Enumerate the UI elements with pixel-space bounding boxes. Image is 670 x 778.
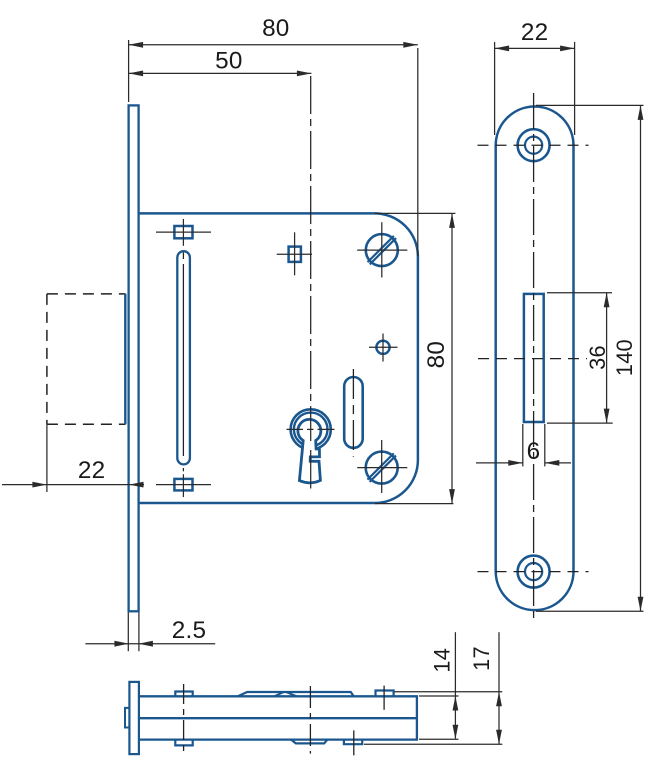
bottom view tab top left bbox=[175, 692, 192, 697]
svg-text:50: 50 bbox=[215, 48, 242, 75]
guide slot bbox=[177, 251, 190, 464]
guide square bottom bbox=[156, 474, 211, 497]
bottom view cover plate top bbox=[238, 692, 354, 696]
dimension 17 bbox=[364, 632, 502, 744]
lock body outline bbox=[139, 213, 418, 503]
svg-text:17: 17 bbox=[469, 646, 494, 671]
plate hole bottom bbox=[518, 556, 550, 588]
bottom view tab bottom right bbox=[344, 740, 362, 745]
svg-text:22: 22 bbox=[521, 19, 548, 46]
bottom view tab top right bbox=[376, 691, 394, 697]
auxiliary slot centerline bbox=[352, 369, 354, 457]
keyhole bbox=[287, 406, 335, 489]
dimension 2.5 bbox=[85, 612, 215, 651]
svg-text:80: 80 bbox=[423, 341, 450, 368]
svg-text:140: 140 bbox=[612, 339, 637, 376]
bottom view tab bottom left bbox=[175, 740, 192, 746]
keyhole centerline bbox=[310, 76, 312, 404]
bottom view centerline left tabs bbox=[183, 684, 185, 753]
plate hole bottom centerline bbox=[478, 571, 589, 573]
latch bolt face edge bbox=[124, 294, 126, 425]
svg-text:36: 36 bbox=[585, 345, 610, 370]
guide slot centerline bbox=[182, 253, 184, 472]
dimension 22 right bbox=[495, 19, 575, 135]
pin hole bbox=[369, 334, 398, 362]
plate hole top bbox=[518, 129, 550, 161]
bottom view bolt tip bbox=[125, 708, 129, 728]
plate slot centerline bbox=[478, 358, 587, 360]
svg-text:80: 80 bbox=[262, 15, 289, 42]
dimension 6 bbox=[476, 424, 571, 466]
dimension 36 bbox=[547, 293, 613, 423]
dimension 80 right bbox=[375, 213, 456, 503]
dimension 50 bbox=[129, 48, 312, 77]
strike plate side view bbox=[496, 107, 574, 611]
bottom view faceplate bbox=[129, 682, 139, 754]
dimension 140 bbox=[536, 105, 644, 611]
guide square top bbox=[156, 219, 211, 246]
svg-text:6: 6 bbox=[527, 438, 541, 465]
auxiliary slot bbox=[344, 377, 363, 448]
plate slot bbox=[524, 294, 544, 422]
bottom view cover bend bottom bbox=[291, 740, 327, 744]
svg-text:22: 22 bbox=[78, 457, 105, 484]
svg-text:14: 14 bbox=[430, 648, 455, 673]
bottom view body bbox=[140, 696, 417, 739]
latch bolt hidden outline bbox=[47, 294, 126, 424]
front view faceplate bbox=[129, 105, 139, 611]
plate hole top centerline bbox=[478, 144, 589, 146]
dimension 80 top bbox=[129, 15, 418, 256]
dimension 22 left bbox=[2, 424, 144, 492]
screw top bbox=[357, 222, 407, 277]
bottom view centerline tab top right bbox=[383, 686, 385, 710]
svg-text:2.5: 2.5 bbox=[172, 617, 206, 644]
bottom view centerline tab bottom right bbox=[353, 730, 355, 755]
plate vertical centerline bbox=[533, 93, 535, 619]
dimension 14 bbox=[419, 632, 459, 739]
screw bottom bbox=[357, 440, 407, 493]
bottom view centerline middle bbox=[309, 686, 311, 754]
spindle square hole bbox=[277, 232, 312, 275]
